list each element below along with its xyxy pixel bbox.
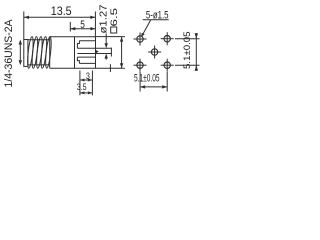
hole top-left: [134, 33, 147, 46]
dimension 5 line with arrows: [70, 27, 95, 30]
label square 6.5 (rotated, square drawn as rect): [111, 27, 117, 33]
hole top-right: [161, 32, 174, 45]
label underline: [143, 19, 169, 21]
flange inner top line: [79, 40, 95, 42]
extension line left for horizontal pitch: [139, 72, 141, 92]
thread coil loop 1: [27, 36, 35, 68]
hole bottom-right: [161, 59, 174, 72]
extension line right for horizontal pitch: [166, 72, 168, 92]
hole center: [148, 46, 161, 59]
extension line for 3/3.5 left: [79, 71, 81, 96]
flange inner bottom line: [79, 62, 95, 64]
extension line bottom for vertical pitch: [175, 64, 200, 66]
dimension 13.5 line with arrows: [24, 16, 95, 19]
extension line left of 13.5 (also cap left edge continuation): [23, 12, 25, 40]
dimension square6.5 vertical line with arrows: [120, 37, 123, 69]
svg-text:ø1.27: ø1.27: [98, 4, 109, 33]
thread diameter dimension line (left, vertical with outward arrows): [19, 40, 22, 66]
vertical pitch dimension line with arrows: [195, 33, 198, 71]
insulator bore bottom line: [77, 56, 95, 58]
thread coil loop 2: [31, 36, 39, 68]
extension line for 3/3.5 right: [91, 71, 93, 96]
body cylinder + flange outline: [50, 37, 96, 68]
leader line with arrow to top-left hole: [141, 20, 151, 37]
horizontal pitch dimension line with arrows: [140, 85, 167, 88]
inner step bottom: [77, 57, 79, 63]
hole bottom-left: [134, 59, 147, 72]
dimension ø1.27 leader with arrows: [105, 34, 108, 60]
center pin end tick: [110, 48, 112, 57]
flange bottom extension line: [96, 67, 125, 69]
svg-text:6.5: 6.5: [109, 8, 119, 27]
extension line top for vertical pitch: [175, 38, 200, 40]
connector mating face cap: [24, 40, 28, 67]
center pin bottom edge: [77, 53, 111, 55]
dimension 3 line with arrows: [80, 79, 93, 82]
svg-text:5.1±0.05: 5.1±0.05: [182, 31, 193, 68]
svg-text:3.5: 3.5: [77, 82, 87, 92]
svg-text:13.5: 13.5: [51, 4, 72, 18]
inner step top: [77, 41, 79, 49]
extension tick near pin: [109, 64, 111, 72]
thread core top line: [28, 39, 50, 41]
extension line left of 5: [69, 22, 71, 32]
flange top extension line: [96, 36, 125, 38]
thread core bottom line: [28, 64, 50, 66]
dimension 3.5 line with arrows: [80, 91, 93, 94]
center pin top edge: [77, 47, 111, 49]
svg-text:1/4-36UNS-2A: 1/4-36UNS-2A: [3, 19, 15, 88]
pin root arrow mark: [96, 50, 99, 53]
svg-text:5.1±0.05: 5.1±0.05: [134, 73, 160, 85]
thread coil loop 4: [40, 36, 48, 68]
thread coil loop 3: [36, 36, 44, 68]
thread coil loop 5: [45, 36, 53, 68]
extension line right of 13.5 / 5 (flange right face): [94, 12, 96, 37]
